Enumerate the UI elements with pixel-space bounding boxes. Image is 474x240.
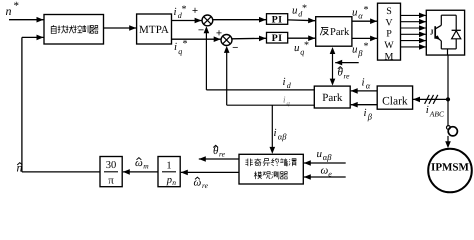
svg-text:i: i <box>362 77 365 89</box>
svg-text:αβ: αβ <box>278 132 287 142</box>
svg-text:re: re <box>219 150 226 159</box>
svg-text:PI: PI <box>272 33 283 44</box>
wire i_alphabeta tap to observer <box>271 105 273 149</box>
wire 30/pi to feedback <box>22 171 100 173</box>
svg-text:1: 1 <box>166 161 171 172</box>
svg-text:α: α <box>366 81 371 91</box>
wire Clark to Park i_alpha <box>351 90 378 92</box>
svg-text:β: β <box>367 112 373 122</box>
observer row2 char 1 <box>254 171 262 179</box>
block observer (NTSM observer) <box>239 154 303 184</box>
svg-text:αβ: αβ <box>323 152 332 162</box>
svg-text:i: i <box>174 41 177 53</box>
fan character <box>320 27 328 35</box>
svg-text:n: n <box>6 4 12 18</box>
block ADRC (zi kang rao kong zhi qi) <box>44 15 104 45</box>
wire speed feedback vertical <box>21 37 23 172</box>
wire invPark to SVPWM top <box>352 20 377 22</box>
svg-text:−: − <box>198 25 204 37</box>
wire Park out i_q <box>227 104 315 106</box>
svg-text:*: * <box>182 4 187 15</box>
ADRC char 2 <box>58 25 66 33</box>
svg-text:PI: PI <box>272 14 283 25</box>
svg-text:i: i <box>274 127 277 139</box>
svg-text:re: re <box>344 71 351 80</box>
svg-text:MTPA: MTPA <box>139 24 169 36</box>
observer row2 char 3 <box>272 171 279 179</box>
inverter diode <box>452 31 461 39</box>
wire invPark to SVPWM bottom <box>352 37 377 39</box>
ADRC char 5 <box>82 25 90 33</box>
svg-text:i: i <box>283 76 286 88</box>
inverter IGBT loop wire <box>441 14 456 16</box>
inverter bottom lead <box>447 49 449 55</box>
svg-text:u: u <box>352 44 358 56</box>
svg-text:u: u <box>317 148 323 160</box>
wire i_ABC to Clark <box>413 98 448 100</box>
wire summer2 to PI2 <box>232 37 266 40</box>
wire observer theta_re output <box>199 158 239 160</box>
wire Clark to Park i_beta <box>351 104 378 106</box>
svg-text:u: u <box>292 5 298 17</box>
svg-text:ω: ω <box>194 177 202 189</box>
theta_re horizontal feed <box>335 62 359 64</box>
inverter IGBT transistor <box>434 26 436 39</box>
svg-text:*: * <box>364 5 369 16</box>
wire sensor to motor <box>447 136 449 143</box>
observer row1 char 5 <box>280 158 288 166</box>
wire Park out i_d <box>206 89 314 91</box>
svg-text:β: β <box>357 48 363 58</box>
svg-text:π: π <box>108 175 114 187</box>
current sensor loop <box>447 126 451 130</box>
svg-text:i: i <box>364 107 367 119</box>
observer row1 char 3 <box>263 159 270 166</box>
wire u_alphabeta into observer <box>304 162 346 164</box>
observer row2 char 2 <box>263 172 271 179</box>
block PI1 <box>267 14 288 25</box>
svg-text:i: i <box>426 104 429 116</box>
wire omega_e into observer <box>304 176 346 178</box>
observer row1 char 1 <box>245 158 253 166</box>
observer row1 char 6 <box>289 159 296 166</box>
svg-text:V: V <box>385 17 393 28</box>
svg-text:*: * <box>183 39 188 50</box>
summer1 circle <box>202 15 213 26</box>
wire summer1 to PI1 <box>213 19 266 21</box>
svg-text:P: P <box>386 29 392 40</box>
ADRC char 3 <box>66 25 74 33</box>
svg-text:u: u <box>352 7 358 19</box>
observer row1 char 2 <box>254 158 261 165</box>
block SVPWM <box>378 3 401 60</box>
svg-text:ABC: ABC <box>429 110 445 119</box>
svg-text:u: u <box>294 42 300 54</box>
junction dot i_ABC <box>446 97 450 101</box>
block Clark <box>377 86 412 109</box>
wire i_q feedback vertical to summer2 <box>226 50 228 106</box>
wire MTPA to summer1 <box>172 20 202 22</box>
wire i_d feedback vertical to summer1 <box>205 30 207 90</box>
svg-text:Clark: Clark <box>382 96 408 108</box>
block 30/pi <box>100 157 122 187</box>
wire ADRC to MTPA <box>104 27 137 29</box>
block Park <box>314 86 350 108</box>
ADRC char 6 <box>90 26 98 34</box>
theta_re vertical double arrow <box>332 53 334 81</box>
summer2 circle <box>221 35 232 46</box>
svg-text:M: M <box>385 51 394 62</box>
wire n* to ADRC <box>9 19 44 21</box>
three-phase slashes <box>425 95 430 104</box>
svg-text:i: i <box>174 6 177 18</box>
block MTPA <box>137 14 172 44</box>
svg-text:J: J <box>430 28 434 37</box>
svg-text:*: * <box>302 3 307 14</box>
svg-text:+: + <box>192 5 198 17</box>
svg-text:30: 30 <box>106 160 117 171</box>
svg-text:re: re <box>202 181 209 190</box>
wire feedback into ADRC <box>22 36 44 38</box>
wire PI1 to invPark <box>288 19 316 22</box>
svg-text:−: − <box>232 42 238 54</box>
observer row1 char 4 <box>271 158 279 165</box>
motor IPMSM <box>428 149 472 193</box>
observer row2 char 4 <box>280 172 288 179</box>
svg-text:d: d <box>287 81 292 90</box>
ADRC char 4 <box>74 25 82 33</box>
block inverter <box>426 10 464 55</box>
svg-text:ω: ω <box>135 157 143 169</box>
ADRC char 1 <box>51 25 56 33</box>
svg-text:ω: ω <box>321 165 329 177</box>
svg-text:q: q <box>287 100 291 107</box>
wire MTPA to summer2 <box>172 38 221 40</box>
wires SVPWM to inverter (6 PWM lines) <box>401 14 427 16</box>
svg-text:Park: Park <box>322 92 343 104</box>
wire inverter to motor <box>447 55 449 126</box>
block PI2 <box>267 32 288 43</box>
svg-text:Park: Park <box>330 27 350 38</box>
svg-text:IPMSM: IPMSM <box>431 161 470 173</box>
svg-text:S: S <box>386 6 392 17</box>
svg-text:p: p <box>166 175 172 186</box>
svg-text:m: m <box>143 162 149 171</box>
svg-text:W: W <box>384 40 394 51</box>
svg-text:*: * <box>364 41 369 52</box>
svg-text:e: e <box>328 169 332 178</box>
svg-text:n: n <box>172 178 176 187</box>
svg-text:*: * <box>14 0 20 12</box>
wire 1/pn to 30/pi <box>123 171 158 173</box>
block inverse Park (fan + Park) <box>316 17 352 47</box>
svg-text:*: * <box>304 40 309 51</box>
wire PI2 to invPark <box>288 37 316 39</box>
block 1/pn <box>158 157 180 187</box>
wire observer omega_re to 1/pn <box>181 171 239 173</box>
